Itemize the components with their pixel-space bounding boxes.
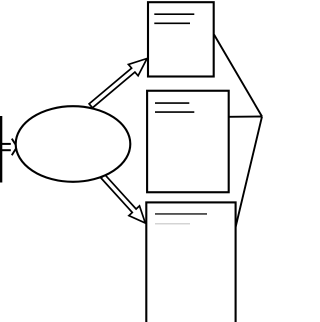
middle rectangle <box>147 91 229 193</box>
top rectangle text line 2 <box>154 22 190 24</box>
bottom rectangle (clipped by page bottom) <box>146 202 235 322</box>
hollow arrow: ellipse to top rectangle <box>89 59 147 108</box>
middle rectangle text line 2 <box>155 111 194 113</box>
input arrowhead <box>12 139 17 156</box>
bottom rectangle text line 1 <box>155 213 207 215</box>
hollow arrow: ellipse to bottom rectangle <box>101 175 145 223</box>
wire: diagonal from top rectangle right edge to right vertex <box>214 35 262 117</box>
ellipse (state bubble), clips arrow tails <box>16 106 131 182</box>
wire: double-line input shaft lower <box>2 149 11 151</box>
wire: horizontal from middle rectangle right edge to right vertex <box>229 116 262 118</box>
wire: diagonal from right vertex down to bottom rectangle right edge <box>236 117 262 228</box>
bottom rectangle text line 2 <box>155 223 190 225</box>
node: left boundary bar <box>0 116 2 183</box>
middle rectangle text line 1 <box>155 102 189 104</box>
top rectangle text line 1 <box>154 13 194 15</box>
top rectangle <box>148 2 214 76</box>
wire: double-line input shaft upper <box>2 143 11 145</box>
